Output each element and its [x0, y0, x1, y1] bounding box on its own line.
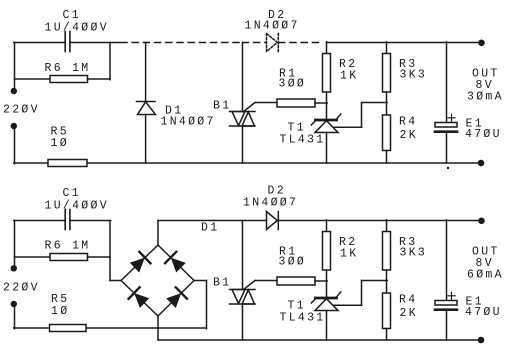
- wire D1 bottom wire (top circuit): [145, 115, 147, 164]
- svg-text:6ØmA: 6ØmA: [467, 269, 504, 282]
- resistor R1 (bottom circuit): [277, 277, 315, 285]
- wire E1 top wire (bottom circuit): [446, 220, 448, 301]
- wire bridge edge right-top (bottom circuit): [158, 245, 194, 281]
- svg-text:R6 1M: R6 1M: [45, 240, 91, 253]
- wire R3 top wire (bottom circuit): [386, 220, 388, 232]
- svg-text:B1: B1: [213, 100, 231, 113]
- wire top rail right of C1 (top circuit): [70, 42, 127, 44]
- wire C1/R6 to bridge (bottom circuit): [109, 221, 111, 281]
- wire T1 anode to rail (bottom circuit): [326, 311, 328, 341]
- diode bridge D1 lower-left (bottom circuit): [129, 287, 150, 308]
- wire left vertical upper (top circuit): [14, 43, 16, 92]
- svg-text:TL431: TL431: [280, 312, 326, 325]
- capacitor C1 (bottom circuit): [64, 210, 66, 230]
- resistor R2 (bottom circuit): [323, 232, 331, 271]
- node 220V live terminal (bottom circuit): [11, 265, 17, 271]
- resistor R1 (top circuit): [277, 99, 315, 107]
- node 220V live terminal (top circuit): [11, 88, 17, 94]
- svg-text:22ØV: 22ØV: [3, 104, 40, 117]
- resistor R6 (bottom circuit): [15, 256, 51, 258]
- wire top rail left of C1 (top circuit): [14, 42, 65, 44]
- wire R6 right vertical (top circuit): [109, 43, 111, 80]
- svg-text:1U/4ØØV: 1U/4ØØV: [45, 22, 109, 35]
- wire bridge edge bottom-right (bottom circuit): [158, 281, 194, 317]
- svg-text:2K: 2K: [400, 307, 418, 320]
- resistor R5 (bottom circuit): [50, 325, 87, 332]
- svg-text:1K: 1K: [340, 70, 358, 83]
- svg-text:1N4ØØ7: 1N4ØØ7: [161, 116, 216, 129]
- svg-text:47ØU: 47ØU: [465, 128, 502, 141]
- shunt regulator T1 TL431 (top circuit): [316, 119, 337, 122]
- wire dashed rail B1 to D2 (top circuit): [243, 42, 267, 44]
- capacitor C1 (top circuit): [64, 32, 66, 52]
- diode bridge D1 upper-right (bottom circuit): [165, 252, 186, 273]
- svg-text:B1: B1: [213, 277, 231, 290]
- diode D2 (top circuit, dashed): [267, 34, 278, 52]
- wire left vertical lower (top circuit): [14, 125, 16, 164]
- wire B1 gate (top circuit): [244, 103, 255, 112]
- svg-text:3ØmA: 3ØmA: [467, 91, 504, 104]
- wire E1 bottom wire (top circuit): [446, 132, 448, 163]
- svg-text:R4: R4: [399, 116, 417, 129]
- wire R1 to node (bottom circuit): [315, 280, 327, 282]
- resistor R3 (top circuit): [383, 54, 391, 93]
- wire bridge edge left-top (bottom circuit): [121, 245, 158, 281]
- svg-text:R5: R5: [51, 293, 69, 306]
- wire B1 bottom wire (bottom circuit): [242, 304, 244, 340]
- wire D1 top wire (top circuit): [145, 43, 147, 102]
- resistor R2 (top circuit): [323, 54, 331, 93]
- wire B1 bottom wire (top circuit): [242, 126, 244, 163]
- wire T1 ref (bottom circuit): [334, 304, 362, 306]
- wire R3-R4 node wire (top circuit): [386, 92, 388, 115]
- svg-text:C1: C1: [63, 187, 81, 200]
- wire top rail left of C1 (bottom circuit): [14, 220, 65, 222]
- diode D2 (bottom circuit): [267, 212, 278, 230]
- node OUT negative terminal (bottom circuit): [478, 337, 485, 344]
- wire bridge right vertex to R5 rail (bottom circuit): [194, 280, 207, 282]
- svg-text:D1: D1: [201, 222, 219, 235]
- resistor R6 (top circuit): [15, 78, 51, 80]
- node 220V neutral terminal (top circuit): [11, 123, 17, 129]
- svg-text:1Ø: 1Ø: [51, 305, 69, 318]
- wire B1 top wire (bottom circuit): [242, 221, 244, 290]
- wire top rail right of C1 (bottom circuit): [70, 220, 110, 222]
- wire R2 bottom wire (top circuit): [326, 92, 328, 120]
- wire left vertical upper (bottom circuit): [14, 221, 16, 269]
- shunt regulator T1 TL431 (bottom circuit): [316, 297, 337, 300]
- svg-text:R6 1M: R6 1M: [45, 62, 91, 75]
- resistor R4 (bottom circuit): [383, 293, 391, 329]
- node OUT negative terminal (top circuit): [478, 160, 485, 167]
- node 220V neutral terminal (bottom circuit): [11, 301, 17, 307]
- node stray dot (top circuit): [447, 167, 449, 169]
- wire R2 top wire (top circuit): [326, 42, 328, 54]
- svg-text:TL431: TL431: [280, 134, 326, 147]
- wire solid top rail right (top circuit): [327, 42, 482, 44]
- svg-text:1K: 1K: [340, 248, 358, 261]
- triac B1 (bottom circuit): [230, 289, 256, 291]
- wire R4 bottom wire (bottom circuit): [386, 329, 388, 341]
- wire bridge bottom vertex to minus rail (bottom circuit): [157, 315, 159, 340]
- node OUT positive terminal (top circuit): [478, 40, 485, 47]
- svg-text:3ØØ: 3ØØ: [279, 78, 307, 91]
- svg-text:1N4ØØ7: 1N4ØØ7: [245, 19, 300, 32]
- wire dashed top rail (top circuit): [127, 42, 242, 44]
- wire T1 anode to rail (top circuit): [326, 133, 328, 164]
- svg-text:2K: 2K: [400, 129, 418, 142]
- svg-text:1U/4ØØV: 1U/4ØØV: [45, 200, 109, 213]
- wire dashed rail right of D2 (top circuit): [279, 42, 322, 44]
- diode bridge D1 lower-right (bottom circuit): [166, 287, 187, 308]
- wire R3-R4 node wire (bottom circuit): [386, 270, 388, 293]
- wire DC plus rail right of D2 (bottom circuit): [279, 220, 481, 222]
- wire B1 top wire (top circuit): [242, 43, 244, 112]
- wire left vertical lower (bottom circuit): [14, 303, 16, 329]
- wire R5 rail (bottom circuit): [14, 327, 50, 329]
- svg-text:3K3: 3K3: [400, 247, 428, 260]
- wire bridge top vertex to rail (bottom circuit): [157, 221, 159, 246]
- capacitor E1 (bottom circuit): [435, 301, 457, 306]
- diode bridge D1 upper-left (bottom circuit): [129, 252, 150, 273]
- capacitor E1 (top circuit): [435, 123, 457, 128]
- wire R3 top wire (top circuit): [386, 42, 388, 54]
- wire R4 bottom wire (top circuit): [386, 151, 388, 164]
- svg-text:1Ø: 1Ø: [51, 137, 69, 150]
- node OUT positive terminal (bottom circuit): [478, 218, 485, 225]
- triac B1 (top circuit): [230, 111, 256, 113]
- wire R2 bottom wire (bottom circuit): [326, 270, 328, 298]
- resistor R5 (top circuit): [48, 160, 87, 167]
- wire DC minus rail (bottom circuit): [158, 339, 481, 341]
- svg-text:47ØU: 47ØU: [465, 306, 502, 319]
- diode D1 (top circuit): [137, 101, 156, 103]
- svg-text:R4: R4: [399, 294, 417, 307]
- wire DC plus rail (bottom circuit): [158, 220, 266, 222]
- resistor R3 (bottom circuit): [383, 232, 391, 271]
- wire B1 gate (bottom circuit): [244, 281, 255, 290]
- wire R2 top wire (bottom circuit): [326, 220, 328, 232]
- wire E1 bottom wire (bottom circuit): [446, 310, 448, 340]
- svg-text:1N4ØØ7: 1N4ØØ7: [243, 196, 298, 209]
- svg-text:C1: C1: [63, 9, 81, 22]
- wire E1 top wire (top circuit): [446, 42, 448, 123]
- svg-text:3K3: 3K3: [400, 69, 428, 82]
- wire bridge edge bottom-left (bottom circuit): [121, 281, 158, 317]
- wire bottom rail (top circuit): [14, 162, 48, 164]
- svg-text:3ØØ: 3ØØ: [279, 256, 307, 269]
- wire R1 to node (top circuit): [315, 102, 327, 104]
- wire T1 ref (top circuit): [334, 126, 362, 128]
- resistor R4 (top circuit): [383, 115, 391, 151]
- svg-text:22ØV: 22ØV: [3, 282, 40, 295]
